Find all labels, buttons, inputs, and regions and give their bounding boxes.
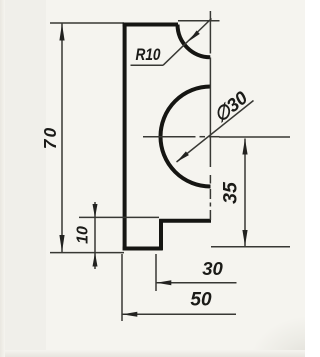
dimension 50: extension line [121,254,123,321]
dimension 70: bottom arrow [59,235,64,252]
centerline: vertical axis dash [209,210,211,220]
centerline: horizontal axis dash [209,136,220,138]
centerline: horizontal axis long dash [143,136,196,138]
dimension 10: lower outside arrow pointing up [93,253,98,267]
svg-text:10: 10 [75,226,92,244]
leader R10: arrowhead on arc [189,31,200,42]
dimension 35: dimension line [244,139,246,247]
part outline: top edge [123,23,178,27]
bottom edge shading [0,350,305,357]
dimension 35: top arrow [242,139,247,155]
wire: top extension line left of part [50,22,124,24]
svg-text:R10: R10 [136,45,161,64]
dimension 30: dimension line [156,282,236,284]
svg-text:70: 70 [40,127,60,149]
leader R10: shelf under text [131,64,164,66]
svg-text:35: 35 [220,181,242,204]
svg-text:50: 50 [190,290,212,311]
leader D30: slanted leader line through center [177,101,254,163]
dimension 30: extension line [155,254,157,291]
part outline: R10 concave arc [178,25,211,58]
dimension 10: upper outside arrow pointing down [93,204,98,218]
part outline: step top edge [159,219,211,223]
circle D30 semicircle [161,87,211,187]
centerline: horizontal axis dot [200,136,206,138]
page corner shading bottom-right [225,295,305,357]
subtle left paper tint [0,0,46,357]
dimension 35: top extension line [219,136,290,138]
part outline: bottom edge [123,247,162,251]
part outline: step riser [159,219,163,250]
dimension 30: left arrow [156,280,171,285]
centerline: vertical axis long segment through circle [209,58,211,168]
centerline: vertical axis dash [209,189,211,199]
centerline: vertical axis dash [209,175,211,184]
dimension 10: dimension line vertical [94,202,96,269]
part outline: left edge [123,23,127,251]
leader R10: slanted leader line [163,19,212,66]
centerline: vertical axis dot [209,203,211,207]
dimension 35: bottom arrow [242,230,247,246]
leader D30: arrowhead on circle [177,151,189,162]
left edge shading [0,0,5,357]
dimension 10: extension line of step top [79,216,159,218]
wire: top extension line right of arc to axis [178,20,220,22]
centerline: vertical axis upper segment [209,11,211,54]
dimension 70: top arrow [59,24,64,41]
dimension 50: dimension line [122,313,236,315]
dimension 70: bottom extension line [50,252,124,254]
svg-text:30: 30 [202,258,223,279]
dimension 70: dimension line [61,24,63,253]
dimension 50: left arrow [122,312,137,317]
dimension 35: bottom extension line [211,246,290,248]
